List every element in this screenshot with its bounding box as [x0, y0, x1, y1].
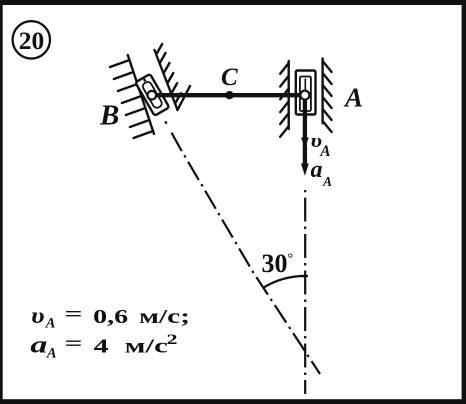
svg-text:30: 30	[262, 249, 288, 278]
svg-text:4: 4	[94, 336, 109, 358]
svg-text:A: A	[46, 346, 57, 362]
svg-text:A: A	[322, 174, 332, 189]
svg-text:2: 2	[167, 332, 178, 348]
svg-text:B: B	[99, 100, 119, 132]
svg-text:υ: υ	[31, 303, 45, 328]
svg-text:м/с: м/с	[125, 336, 168, 358]
svg-text:°: °	[288, 252, 294, 267]
svg-text:C: C	[221, 64, 238, 91]
svg-text:A: A	[45, 316, 56, 332]
svg-text:A: A	[343, 83, 363, 113]
svg-text:=: =	[65, 333, 83, 355]
svg-text:20: 20	[19, 26, 45, 55]
svg-text:0,6: 0,6	[93, 306, 128, 328]
svg-text:=: =	[65, 304, 83, 326]
svg-text:a: a	[30, 333, 47, 359]
svg-text:м/с;: м/с;	[139, 306, 190, 328]
svg-text:a: a	[311, 157, 323, 183]
